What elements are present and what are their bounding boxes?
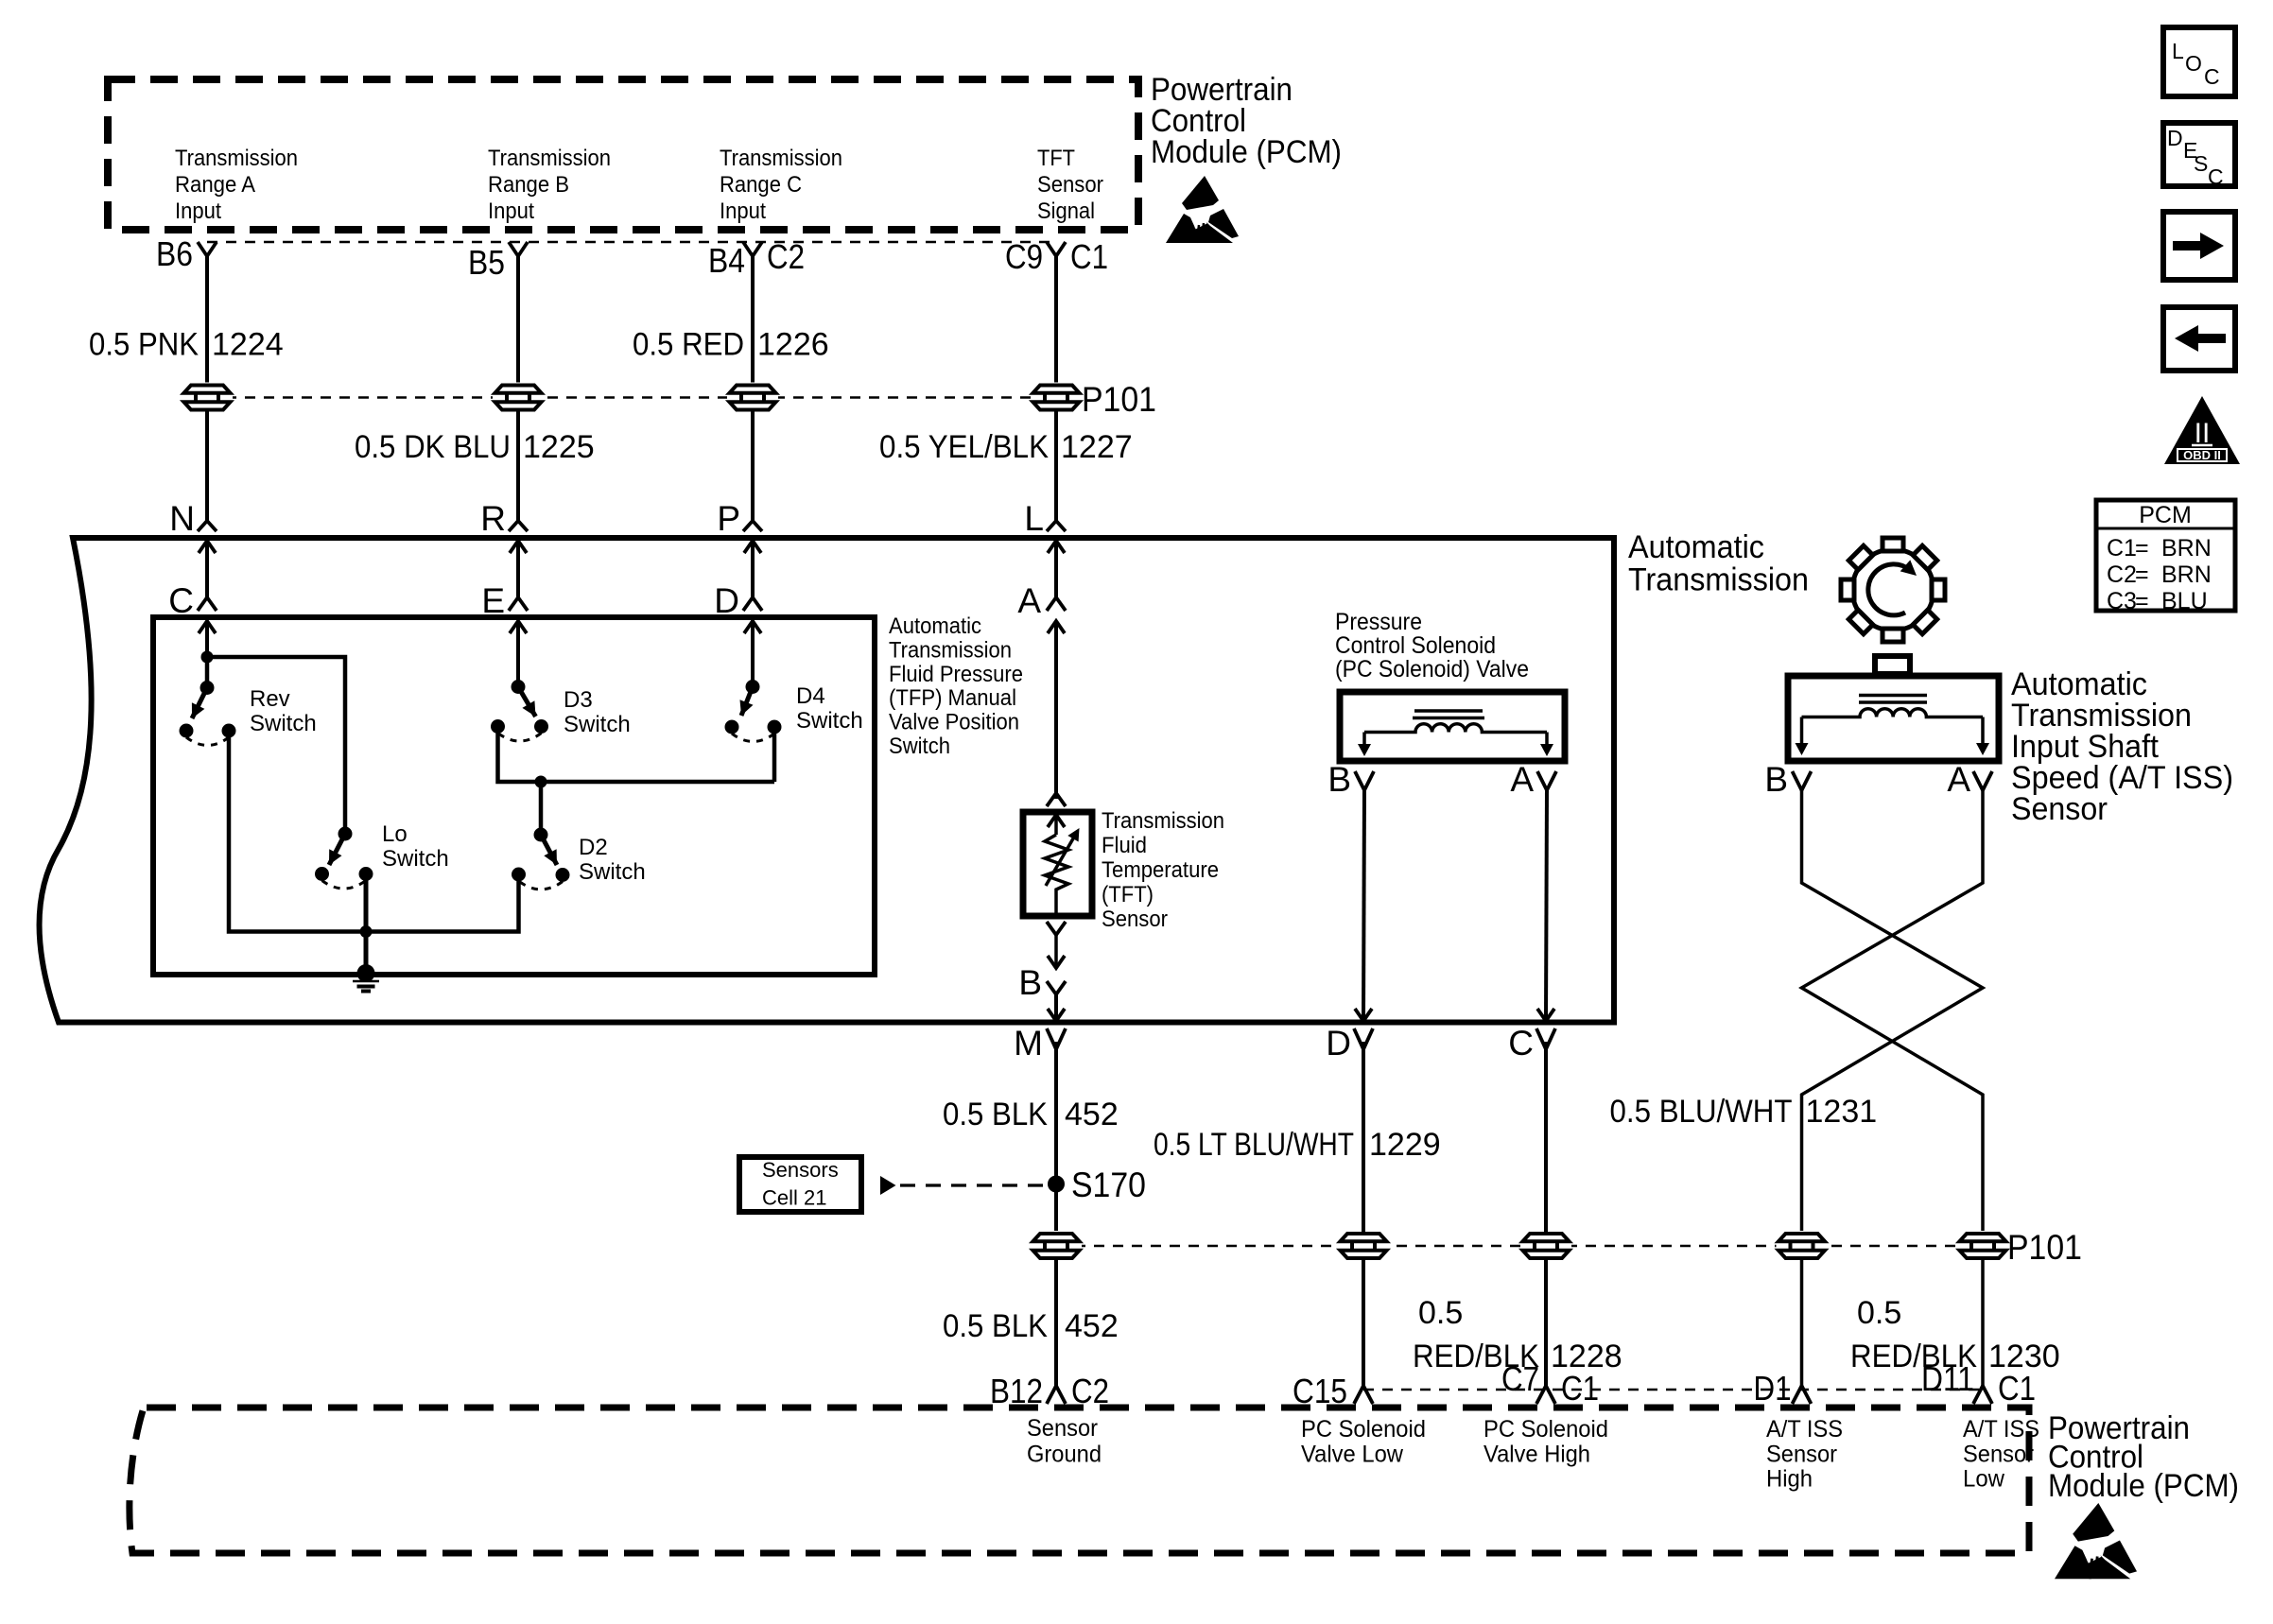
svg-text:Switch: Switch (382, 846, 449, 872)
junction node on D3/D2 bus (535, 776, 547, 788)
pin D (TFP switch) (714, 581, 762, 620)
svg-text:Rev: Rev (250, 686, 290, 712)
label 0.5 RED/BLK 1230 (1850, 1295, 2060, 1374)
label Transmission Range B Input (488, 146, 611, 224)
svg-text:D4: D4 (796, 683, 825, 709)
ISS lead B (1796, 717, 1809, 756)
A/T ISS sensor box (1788, 676, 1999, 761)
Lo switch (315, 827, 373, 890)
wire PC solenoid A down (1537, 789, 1554, 1021)
svg-text:OBD II: OBD II (2183, 448, 2221, 462)
wire P to D (inside box) (744, 541, 761, 597)
wire L to A (inside box) (1048, 541, 1065, 597)
svg-text:E: E (481, 581, 505, 620)
wire C to Rev switch (205, 657, 210, 682)
wire TFT to B (1048, 935, 1065, 968)
svg-text:Valve Position: Valve Position (889, 710, 1019, 735)
svg-text:Transmission: Transmission (175, 146, 298, 171)
svg-text:Switch: Switch (889, 734, 950, 759)
svg-text:0.5 BLU/WHT: 0.5 BLU/WHT (1610, 1094, 1793, 1130)
wire Lo contact to ground (364, 874, 369, 976)
svg-text:P: P (717, 499, 740, 538)
svg-text:R: R (480, 499, 506, 538)
svg-text:Valve High: Valve High (1484, 1442, 1590, 1468)
svg-text:C: C (1508, 1024, 1534, 1063)
wire E entry (510, 621, 527, 686)
svg-text:BRN: BRN (2161, 561, 2212, 588)
svg-text:P101: P101 (2007, 1228, 2082, 1267)
svg-text:(TFT): (TFT) (1102, 882, 1154, 907)
wire 1227 lower (P101 to L) (1054, 411, 1058, 522)
label PC Solenoid Valve Low (1301, 1416, 1426, 1468)
connector P101 at wire 452 (1031, 1231, 1082, 1261)
pin M (1014, 1024, 1066, 1063)
label Transmission Range A Input (175, 146, 298, 224)
gear icon (automatic transmission) (1841, 538, 1945, 642)
pin C (PC solenoid high) (1508, 1024, 1555, 1063)
wire D4 contact leg (772, 727, 777, 782)
connector P101 at wire 1226 (727, 383, 778, 413)
svg-text:S: S (2194, 151, 2208, 176)
wire 452 lower (1054, 1259, 1058, 1386)
svg-text:0.5: 0.5 (1418, 1295, 1463, 1331)
forward arrow icon (2163, 212, 2235, 280)
wire branch to Lo switch (207, 657, 345, 828)
svg-text:A: A (1947, 760, 1970, 799)
PC solenoid lead A (1540, 733, 1553, 757)
svg-text:Range C: Range C (720, 172, 802, 198)
svg-text:Transmission: Transmission (488, 146, 611, 171)
svg-text:Automatic: Automatic (1628, 529, 1764, 565)
svg-text:=: = (2135, 588, 2149, 614)
svg-text:Transmission: Transmission (720, 146, 842, 171)
wire S170 to P101 (1054, 1184, 1058, 1234)
svg-text:Sensor: Sensor (1037, 172, 1103, 198)
label D2 Switch (579, 835, 646, 885)
wire 1227 upper (PCM C9 to P101) (1054, 255, 1058, 384)
pin B4 / C2 (708, 237, 805, 280)
label TFT sensor (1102, 808, 1224, 932)
PCM C1/C2 connector face dashed line (top) (207, 241, 1056, 244)
wire N to C (inside box) (199, 541, 216, 597)
svg-text:Control Solenoid: Control Solenoid (1335, 632, 1496, 659)
Automatic Transmission box outline with break curve (40, 538, 1614, 1023)
label 0.5 RED 1226 (633, 327, 829, 363)
connector P101 at wire 1229 (1338, 1231, 1389, 1261)
wire C to PC solenoid high pin (1544, 1042, 1548, 1233)
label D3 Switch (564, 687, 631, 737)
svg-text:D11: D11 (1921, 1359, 1974, 1398)
wire R to E (inside box) (510, 541, 527, 597)
label Transmission Range C Input (720, 146, 842, 224)
svg-text:C: C (168, 581, 194, 620)
svg-text:C1: C1 (1561, 1369, 1599, 1408)
svg-text:Fluid: Fluid (1102, 833, 1147, 858)
junction node on ground bus (360, 925, 373, 938)
svg-text:High: High (1766, 1466, 1813, 1493)
label PC Solenoid Valve High (1484, 1416, 1608, 1468)
svg-text:TFT: TFT (1037, 146, 1075, 171)
svg-text:0.5 YEL/BLK: 0.5 YEL/BLK (879, 429, 1049, 465)
pin C15 (1293, 1372, 1373, 1410)
wire 1225 upper (PCM B5 to P101) (516, 255, 520, 384)
svg-text:=: = (2135, 535, 2149, 561)
splice S170 (1048, 1166, 1146, 1204)
svg-text:BLU: BLU (2161, 588, 2208, 614)
svg-text:C7: C7 (1501, 1359, 1539, 1398)
svg-text:(PC Solenoid) Valve: (PC Solenoid) Valve (1335, 656, 1529, 682)
pin C9 / C1 (1005, 237, 1108, 276)
svg-text:0.5: 0.5 (1857, 1295, 1901, 1331)
pin D (PC solenoid low) (1326, 1024, 1373, 1063)
label Rev Switch (250, 686, 317, 736)
svg-text:1227: 1227 (1061, 429, 1133, 465)
svg-text:Sensor: Sensor (1766, 1441, 1837, 1467)
svg-text:Sensor: Sensor (1027, 1415, 1098, 1442)
svg-text:PCM: PCM (2139, 502, 2192, 528)
wire C entry (199, 621, 216, 657)
connector P101 at wire 1228 (1520, 1231, 1571, 1261)
svg-text:1231: 1231 (1806, 1094, 1878, 1130)
pin C7 / C1 (1501, 1359, 1599, 1408)
svg-text:C1: C1 (1070, 237, 1108, 276)
label Sensor Ground (1027, 1415, 1102, 1468)
svg-text:Transmission: Transmission (889, 637, 1012, 663)
ISS lead A (1976, 717, 1989, 756)
PC solenoid coil core (1413, 711, 1484, 718)
PCM module box (top, dashed) (108, 79, 1138, 230)
svg-text:Transmission: Transmission (1102, 808, 1224, 834)
wire 1224 (PCM B6 to P101) (205, 255, 209, 384)
PC solenoid valve box (1340, 692, 1565, 761)
label TFT Sensor Signal (1037, 146, 1103, 224)
svg-text:N: N (169, 499, 195, 538)
svg-text:C9: C9 (1005, 237, 1043, 276)
pin B5 (468, 242, 528, 282)
svg-text:Input: Input (175, 199, 221, 224)
wire D entry (744, 621, 761, 686)
svg-text:Cell 21: Cell 21 (762, 1186, 826, 1210)
back arrow icon (2163, 307, 2235, 371)
svg-text:C2: C2 (767, 237, 805, 276)
ISS coil (1802, 709, 1984, 717)
svg-text:1226: 1226 (757, 327, 829, 363)
wire 1230 lower (1981, 1259, 1985, 1386)
svg-text:0.5 PNK: 0.5 PNK (89, 327, 199, 363)
pin D1 (1754, 1369, 1812, 1408)
wire Rev contact to ground bus (229, 731, 366, 932)
sensors cell reference box (739, 1157, 861, 1212)
wire PC solenoid B down (1355, 789, 1372, 1021)
svg-text:A: A (1017, 581, 1041, 620)
connector P101 at wire 1224 (182, 383, 233, 413)
label A/T ISS Sensor Low (1963, 1416, 2039, 1493)
svg-text:0.5 LT BLU/WHT: 0.5 LT BLU/WHT (1154, 1127, 1354, 1163)
connector P101 at wire 1230 (1957, 1231, 2008, 1261)
svg-text:Switch: Switch (250, 711, 317, 736)
svg-text:A/T ISS: A/T ISS (1766, 1416, 1843, 1443)
svg-text:D: D (714, 581, 739, 620)
ISS sensor mounting tab (1875, 656, 1910, 674)
svg-text:Fluid Pressure: Fluid Pressure (889, 662, 1023, 687)
P101 dashed connector line (bottom) (1056, 1245, 1983, 1248)
TFT thermistor element (1045, 815, 1080, 916)
pin B (TFT sensor circuit) (1018, 963, 1066, 1002)
connector P101 at wire 1227 (1031, 383, 1082, 413)
DESC icon (2163, 123, 2235, 189)
svg-text:Switch: Switch (579, 859, 646, 885)
svg-text:L: L (1024, 499, 1044, 538)
svg-text:BRN: BRN (2161, 535, 2212, 561)
svg-text:PC Solenoid: PC Solenoid (1484, 1416, 1608, 1443)
wire ISS A (twisted pair) (1802, 789, 1984, 1234)
label 0.5 BLU/WHT 1231 (1610, 1094, 1878, 1130)
PCM C1 face dashed line (bottom) (1363, 1389, 1983, 1391)
svg-text:C: C (2204, 64, 2220, 89)
label 0.5 BLK 452 (lower) (943, 1308, 1119, 1344)
pin L (1024, 499, 1066, 538)
label Powertrain Control Module (PCM) top (1151, 72, 1342, 170)
svg-text:D1: D1 (1754, 1369, 1792, 1408)
svg-text:Module (PCM): Module (PCM) (2048, 1468, 2239, 1504)
wire D to PC solenoid low pin (1362, 1042, 1365, 1233)
svg-text:B: B (1327, 760, 1351, 799)
svg-text:1229: 1229 (1369, 1127, 1441, 1163)
wire 1231 lower (1800, 1259, 1804, 1386)
chevron below TFT sensor (1047, 922, 1066, 935)
label A/T ISS sensor (2011, 666, 2233, 827)
pin A (A/T ISS) (1947, 760, 1992, 799)
wire D3 contact to D2/D4 bus (498, 727, 775, 783)
D4 switch (725, 680, 782, 742)
svg-text:M: M (1014, 1024, 1043, 1063)
svg-text:Range B: Range B (488, 172, 569, 198)
connector P101 at wire 1225 (493, 383, 544, 413)
ISS coil core (1859, 696, 1927, 703)
svg-text:Input: Input (488, 199, 534, 224)
arrow to sensors cell (880, 1176, 896, 1195)
TFP manual valve position switch box (153, 617, 875, 975)
svg-text:C3: C3 (2107, 588, 2137, 614)
svg-text:O: O (2185, 51, 2202, 76)
label TFP switch (889, 613, 1023, 759)
svg-text:Sensors: Sensors (762, 1158, 839, 1182)
label 0.5 LT BLU/WHT 1229 (1154, 1127, 1441, 1163)
D3 switch (491, 680, 548, 741)
svg-text:Ground: Ground (1027, 1442, 1102, 1468)
pin B6 (156, 234, 217, 273)
pin P (717, 499, 762, 538)
pin C (TFP switch) (168, 581, 217, 620)
label 0.5 DK BLU 1225 (355, 429, 595, 465)
svg-text:PC Solenoid: PC Solenoid (1301, 1416, 1426, 1443)
svg-text:Transmission: Transmission (1628, 562, 1809, 598)
label 0.5 RED/BLK 1228 (1413, 1295, 1622, 1374)
svg-text:Switch: Switch (564, 712, 631, 737)
svg-text:1224: 1224 (212, 327, 284, 363)
svg-text:B: B (1018, 963, 1042, 1002)
wire ISS B (twisted pair) (1802, 789, 1984, 1234)
svg-text:=: = (2135, 561, 2149, 588)
ground symbol (353, 964, 379, 992)
wire 1229 lower (1362, 1259, 1365, 1386)
label Lo Switch (382, 821, 449, 872)
svg-text:Sensor: Sensor (1102, 907, 1168, 932)
junction node on C leg (201, 651, 214, 664)
svg-text:B: B (1764, 760, 1788, 799)
pin B (PC solenoid) (1327, 760, 1374, 799)
svg-text:B4: B4 (708, 241, 745, 280)
svg-text:Range A: Range A (175, 172, 255, 198)
svg-text:0.5 BLK: 0.5 BLK (943, 1308, 1048, 1344)
P101 dashed connector line (top) (207, 396, 1056, 399)
pin D11 / C1 (1921, 1359, 2036, 1408)
svg-text:Module (PCM): Module (PCM) (1151, 134, 1342, 170)
svg-text:Low: Low (1963, 1466, 2005, 1493)
label A/T ISS Sensor High (1766, 1416, 1843, 1493)
Rev switch (180, 681, 236, 746)
pin N (169, 499, 217, 538)
PCM connector legend table (2096, 500, 2235, 614)
svg-text:A/T ISS: A/T ISS (1963, 1416, 2039, 1443)
svg-text:P101: P101 (1082, 380, 1156, 419)
svg-text:0.5 BLK: 0.5 BLK (943, 1097, 1048, 1132)
label 0.5 YEL/BLK 1227 (879, 429, 1133, 465)
PCM module box (bottom, dashed) (130, 1408, 2029, 1553)
svg-text:Sensor: Sensor (1963, 1441, 2034, 1467)
svg-text:0.5 RED: 0.5 RED (633, 327, 744, 363)
svg-text:A: A (1510, 760, 1534, 799)
wire 1225 lower (P101 to R) (516, 411, 520, 522)
wire 1224 lower (P101 to N) (205, 411, 209, 522)
svg-text:Pressure: Pressure (1335, 609, 1422, 635)
svg-text:C: C (2208, 164, 2224, 189)
svg-text:C1: C1 (2107, 535, 2137, 561)
ESD warning symbol (top) (1166, 176, 1239, 243)
svg-text:Input: Input (720, 199, 766, 224)
OBD II icon (2164, 396, 2240, 464)
pin B12 / C2 (990, 1372, 1109, 1410)
svg-text:0.5 DK BLU: 0.5 DK BLU (355, 429, 511, 465)
pin B (A/T ISS) (1764, 760, 1811, 799)
svg-text:B5: B5 (468, 243, 505, 282)
wire B to box edge (1048, 994, 1065, 1021)
TFT sensor box (1023, 812, 1092, 916)
wire 1226 lower (P101 to P) (751, 411, 755, 522)
svg-text:Valve Low: Valve Low (1301, 1442, 1404, 1468)
svg-text:D: D (2167, 126, 2183, 150)
pin A (PC solenoid) (1510, 760, 1556, 799)
label 0.5 BLK 452 (upper) (943, 1097, 1119, 1132)
svg-text:Sensor: Sensor (2011, 791, 2108, 827)
wire bus to D2 pivot (539, 782, 544, 829)
label Pressure Control Solenoid (PC Solenoid) Valve (1335, 609, 1529, 682)
svg-text:Signal: Signal (1037, 199, 1095, 224)
chevron above TFT sensor (1047, 793, 1066, 806)
svg-text:452: 452 (1065, 1097, 1119, 1132)
label D4 Switch (796, 683, 863, 734)
pin A (TFT sensor circuit) (1017, 581, 1066, 620)
LOC icon (2163, 27, 2235, 96)
svg-text:452: 452 (1065, 1308, 1119, 1344)
svg-text:L: L (2172, 39, 2184, 63)
label Sensors Cell 21 (762, 1158, 839, 1210)
svg-text:C1: C1 (1998, 1369, 2036, 1408)
PC solenoid lead B (1358, 733, 1371, 757)
svg-text:D2: D2 (579, 835, 608, 860)
pin E (TFP switch) (481, 581, 528, 620)
connector P101 at wire 1231 (1777, 1231, 1828, 1261)
label Powertrain Control Module (PCM) bottom (2048, 1410, 2239, 1504)
dashed link to S170 (900, 1183, 1044, 1186)
svg-text:Lo: Lo (382, 821, 408, 847)
wire 1226 (PCM B4 to P101) (751, 255, 755, 384)
svg-text:B6: B6 (156, 234, 193, 273)
wire 1228 lower (1544, 1259, 1548, 1386)
svg-text:Switch: Switch (796, 708, 863, 734)
svg-text:1225: 1225 (523, 429, 595, 465)
label 0.5 PNK 1224 (89, 327, 284, 363)
wire A to TFT sensor (1048, 621, 1065, 799)
svg-text:(TFP) Manual: (TFP) Manual (889, 685, 1016, 711)
PC solenoid coil (1364, 724, 1547, 733)
D2 switch (512, 828, 570, 890)
svg-text:D: D (1326, 1024, 1351, 1063)
wire D2 contact to ground bus (366, 874, 519, 932)
svg-text:D3: D3 (564, 687, 593, 713)
pin R (480, 499, 528, 538)
svg-text:S170: S170 (1071, 1166, 1146, 1204)
svg-text:Temperature: Temperature (1102, 857, 1219, 883)
svg-text:C2: C2 (2107, 561, 2137, 588)
wire M to S170 (1054, 1042, 1058, 1184)
svg-text:Automatic: Automatic (889, 613, 981, 639)
ESD warning symbol (bottom) (2055, 1503, 2137, 1579)
label Automatic Transmission (1628, 529, 1809, 598)
